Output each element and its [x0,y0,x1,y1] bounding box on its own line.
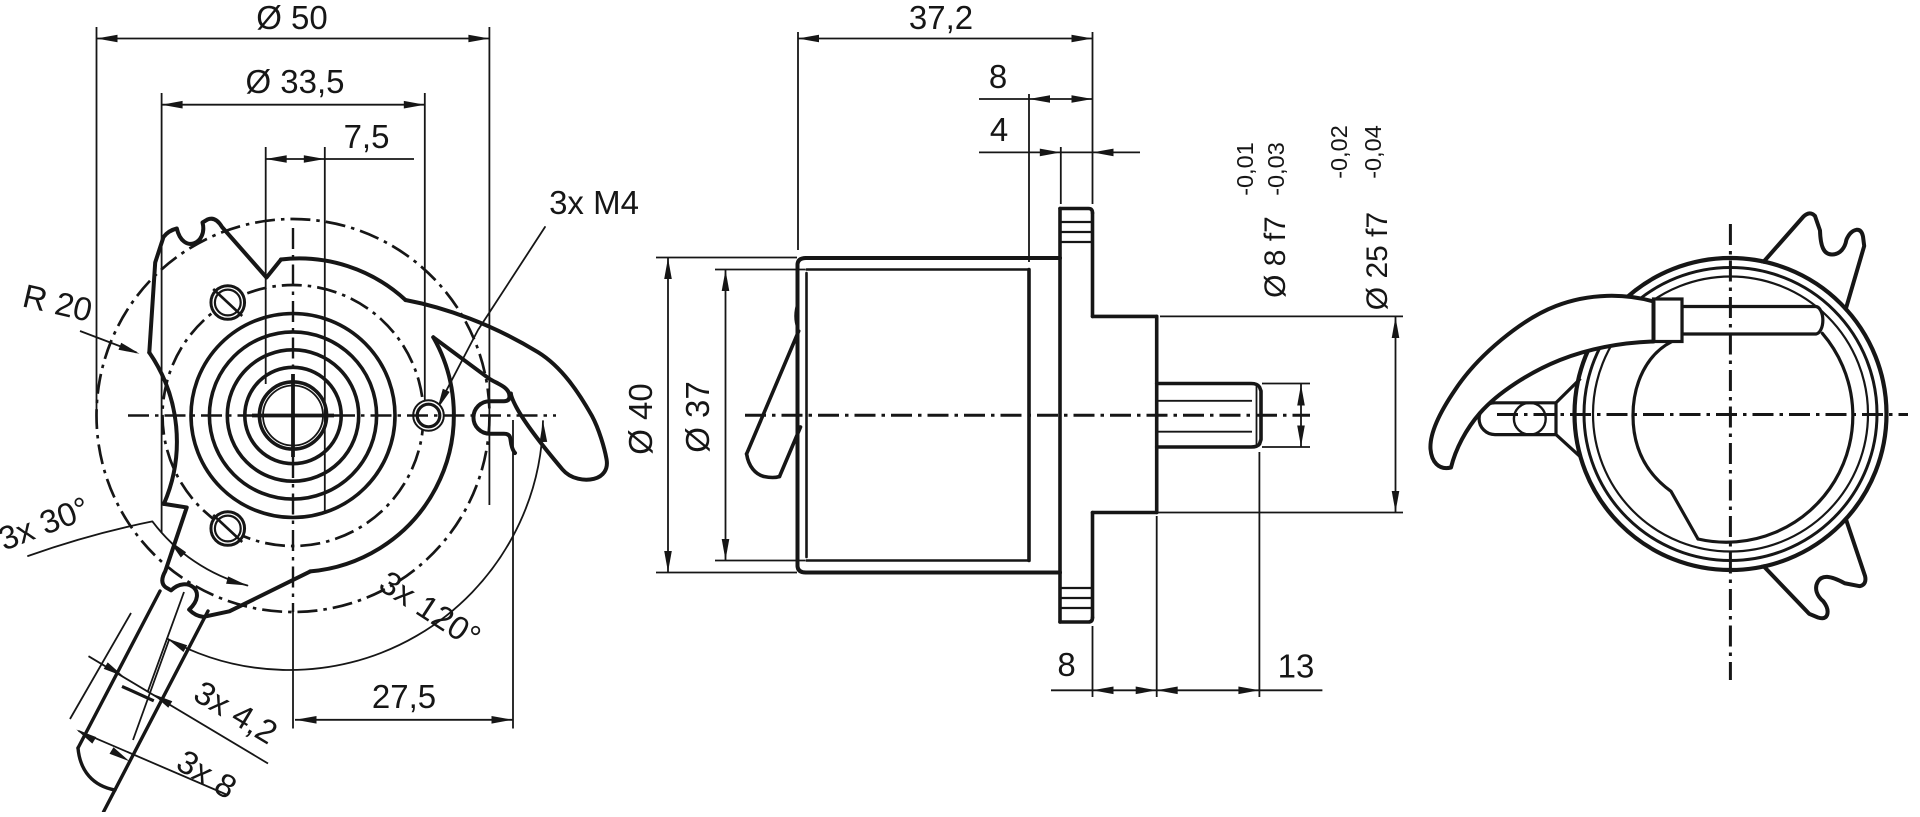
mounting tab top-left (spring plate) [149,219,281,353]
centerlines left view [252,414,334,418]
cable recess arc [1633,342,1698,540]
dimension Ø 25 f7 extension lines [1160,315,1403,317]
dimension Ø 50 extension lines [96,27,98,420]
hub circle [259,382,326,449]
cable boot joint line [122,686,154,700]
dimension 4 [979,151,1140,153]
body right edge [1027,270,1031,561]
cable clamp bar rear [1682,307,1823,335]
dimension 37,2 extension lines [797,32,799,250]
svg-text:Ø 33,5: Ø 33,5 [245,63,344,100]
bolt circle Ø 33,5 dash-dot [163,285,424,546]
svg-text:27,5: 27,5 [372,678,436,715]
dimension 8 (flange offset) extension line [1028,94,1030,262]
shaft Ø 8 [1157,384,1261,448]
svg-text:Ø 25 f7: Ø 25 f7 [1361,212,1394,310]
svg-text:Ø 40: Ø 40 [622,383,659,455]
dimension Ø 40 [667,258,669,573]
torque slot rear (keyhole) [1479,403,1556,435]
cable exiting bottom-left [78,591,160,748]
dimension Ø 33,5 extension lines [161,93,163,533]
recess circle [191,314,395,518]
dimension Ø 40 extension lines [656,257,797,259]
encoder body side view Ø 40 silhouette [806,256,1060,260]
flange face [1091,213,1095,316]
outer circle Ø 50 dash-dot [97,219,490,612]
svg-text:Ø 50: Ø 50 [256,0,328,36]
svg-text:3x M4: 3x M4 [549,184,639,221]
svg-text:7,5: 7,5 [344,118,390,155]
dimension Ø 50 [97,38,490,40]
torque-stop slot right side [433,337,515,453]
svg-text:-0,01: -0,01 [1232,142,1258,196]
M4 tapped hole [413,400,444,431]
rear mounting tab top-right [1763,213,1865,310]
cable gland rear [1654,299,1683,342]
dimension Ø 37 extension lines [715,269,805,271]
collar circle [227,350,358,481]
cable rear view [1430,296,1653,468]
centerlines rear view [1497,413,1908,416]
dimension arc 3x 30&#176; with leader [28,521,247,585]
rear view outer circle [1575,258,1887,570]
rear view middle ring [1584,268,1877,561]
svg-text:-0,03: -0,03 [1263,142,1289,196]
dimension 8 bottom [1051,689,1322,691]
dimension 8 top [979,98,1093,100]
dimension 3x 4,2 extension lines [148,592,184,691]
dimension 3x 4,2 [89,656,269,763]
svg-text:-0,02: -0,02 [1326,125,1352,179]
svg-text:8: 8 [1057,646,1075,683]
screw 2 [211,512,245,546]
clamp plate tab top serrated [1060,209,1093,214]
dimension 13 [1157,687,1178,695]
dimension 37,2 [798,38,1093,40]
screw 1 [211,286,245,320]
clamp plate tab bottom serrated [1060,618,1093,623]
rear view inner ring [1593,277,1868,552]
dimension Ø 37 [725,270,727,561]
dimension Ø 8 f7 extension lines [1262,383,1310,385]
rear mounting tab bottom-right [1754,494,1889,630]
spring torque arm [406,300,607,480]
dimension 27,5 [295,719,513,721]
dimension 3x 8 [79,731,228,795]
centering collar Ø 25 [1093,315,1157,319]
dimension Ø 8 f7 [1300,384,1302,447]
dimension 27,5 extension lines [292,612,294,729]
dimension Ø 33,5 [162,104,425,106]
svg-text:4: 4 [990,111,1008,148]
svg-text:Ø 37: Ø 37 [679,381,716,453]
rear cover plate edge [1698,333,1853,542]
dimension Ø 25 f7 [1395,316,1397,512]
body circle arcs [281,258,406,300]
dimension 4 extension line [1060,147,1062,204]
dimension arc 3x 120&#176; [167,421,543,670]
svg-text:37,2: 37,2 [909,0,973,36]
dimension 8 bottom extension lines [1092,626,1094,697]
svg-text:13: 13 [1278,648,1315,685]
body inner line Ø 37 [807,268,1030,271]
svg-text:-0,04: -0,04 [1360,125,1386,179]
clamp ring circle [245,367,341,463]
centerline side view [745,414,1310,417]
svg-text:8: 8 [989,58,1007,95]
shaft circle Ø 8 [263,386,323,446]
boss circle [209,332,376,499]
dimension 7,5 [266,158,414,160]
svg-text:Ø 8 f7: Ø 8 f7 [1259,216,1292,298]
cable side view [796,303,798,329]
clamp plate left edge [1058,209,1062,623]
mounting tab bottom-left (spring plate) [129,457,311,638]
dimension 7,5 extension lines [265,147,267,384]
